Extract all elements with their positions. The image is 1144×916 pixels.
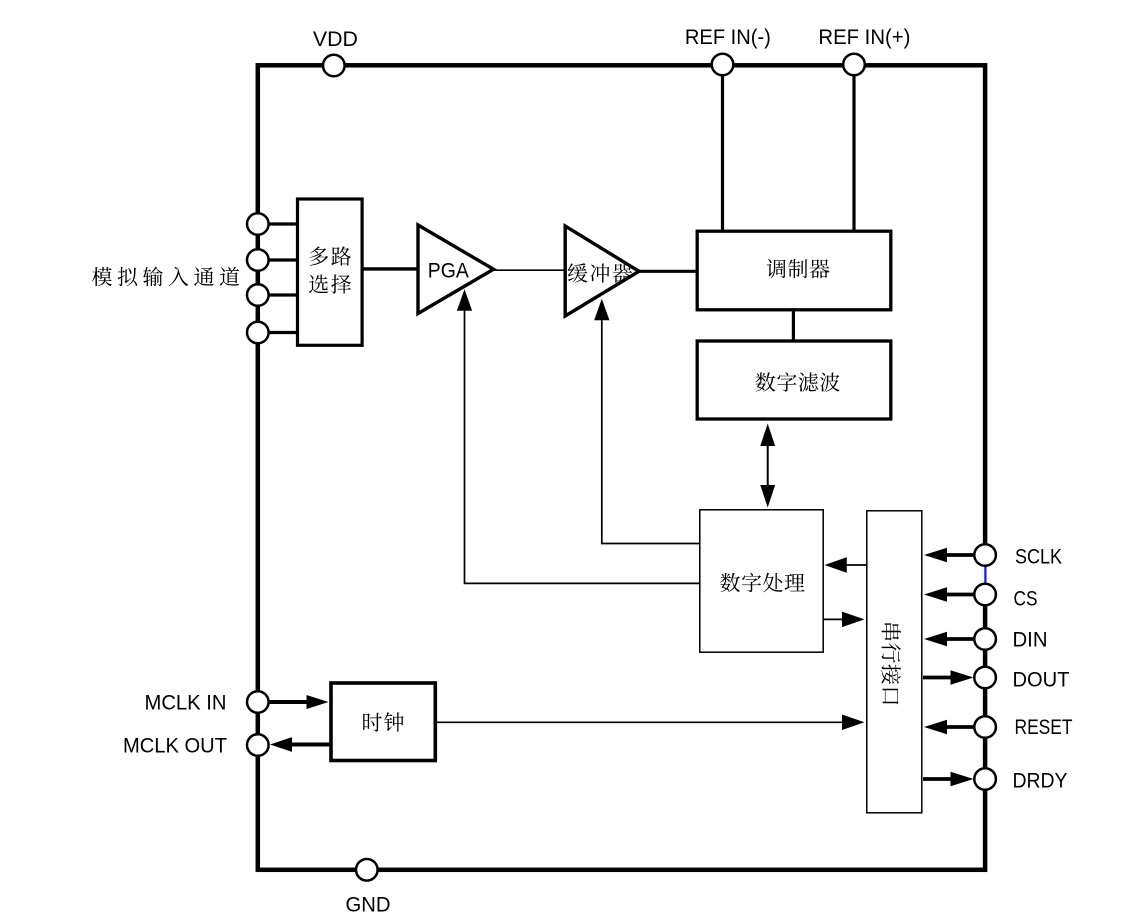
wire DIN into serial interface (924, 632, 974, 647)
label clock 时钟 (363, 712, 404, 731)
pin AIN3 (247, 284, 269, 306)
wire serial interface to digital processing (825, 557, 867, 573)
block digital filter 数字滤波 (697, 341, 891, 419)
pin SCLK (974, 544, 996, 566)
wire modulator to digital filter (792, 309, 795, 342)
svg-text:REF IN(+): REF IN(+) (818, 26, 910, 49)
wire digital processing to PGA control (457, 289, 699, 583)
label digital processing 数字处理 (720, 573, 804, 592)
wire clock to serial interface (435, 715, 865, 731)
block multiplexer (MUX) (298, 199, 363, 345)
pin REF IN(-) (712, 54, 734, 76)
pin RESET (974, 716, 996, 738)
pin AIN1 (247, 213, 269, 235)
pin DIN (974, 628, 996, 650)
pin VDD (323, 55, 345, 77)
pin DOUT (974, 667, 996, 689)
svg-text:MCLK IN: MCLK IN (145, 692, 227, 715)
op-amp buffer triangle outline (565, 226, 639, 316)
wire MCLK IN to clock (269, 695, 329, 709)
wire PGA to buffer (494, 269, 566, 271)
label serial interface 串行接口 (rotated) (882, 623, 901, 704)
label 模拟输入通道 analog input channels (92, 267, 239, 287)
pin MCLK IN (247, 691, 269, 713)
wire clock to MCLK OUT (270, 737, 333, 752)
wire serial interface to DOUT (923, 670, 974, 685)
pin GND (356, 859, 378, 881)
wire SCLK into serial interface (924, 548, 974, 563)
label MUX line2 选择 (309, 274, 351, 293)
wire AIN3 stub to MUX (258, 293, 297, 296)
svg-text:CS: CS (1014, 588, 1038, 611)
wire RESET into serial interface (924, 720, 974, 735)
block digital processing 数字处理 (700, 510, 823, 652)
label buffer 缓冲器 (568, 263, 633, 283)
wire digital processing to buffer control (594, 299, 699, 544)
svg-text:GND: GND (346, 893, 391, 916)
chip outline border (258, 65, 985, 870)
svg-text:REF IN(-): REF IN(-) (685, 26, 771, 49)
net segment (blue) between SCLK and CS (984, 566, 986, 585)
wire REF IN(+) to modulator (852, 65, 855, 231)
wire AIN4 stub to MUX (258, 331, 297, 334)
label MUX line1 多路 (310, 246, 352, 265)
svg-text:RESET: RESET (1015, 716, 1073, 739)
label digital filter 数字滤波 (756, 372, 840, 391)
wire CS into serial interface (924, 587, 974, 602)
wire AIN2 stub to MUX (258, 258, 297, 261)
svg-text:DOUT: DOUT (1013, 668, 1070, 691)
block modulator 调制器 (697, 231, 891, 310)
border gap for blue net (983, 567, 988, 585)
pin AIN2 (247, 249, 269, 271)
pin CS (974, 584, 996, 606)
svg-text:PGA: PGA (428, 260, 469, 283)
block clock 时钟 (331, 683, 435, 761)
pin MCLK OUT (247, 734, 269, 756)
pin REF IN(+) (843, 54, 865, 76)
wire serial interface to DRDY (923, 772, 974, 787)
wire digital processing to serial interface (824, 612, 865, 628)
svg-text:SCLK: SCLK (1015, 546, 1062, 569)
block serial interface 串行接口 (867, 511, 922, 813)
wire AIN1 stub to MUX (258, 222, 297, 225)
wire REF IN(-) to modulator (721, 65, 724, 231)
wire buffer to modulator (638, 270, 698, 273)
svg-text:DIN: DIN (1013, 629, 1048, 652)
op-amp PGA triangle (418, 225, 494, 314)
pin DRDY (974, 768, 996, 790)
svg-text:VDD: VDD (313, 28, 358, 51)
label modulator 调制器 (767, 259, 830, 278)
pin AIN4 (247, 322, 269, 344)
svg-text:DRDY: DRDY (1013, 770, 1068, 793)
svg-text:MCLK OUT: MCLK OUT (123, 735, 227, 758)
wire digital filter to digital processing (double arrow) (760, 424, 775, 508)
wire MUX to PGA (362, 267, 418, 270)
